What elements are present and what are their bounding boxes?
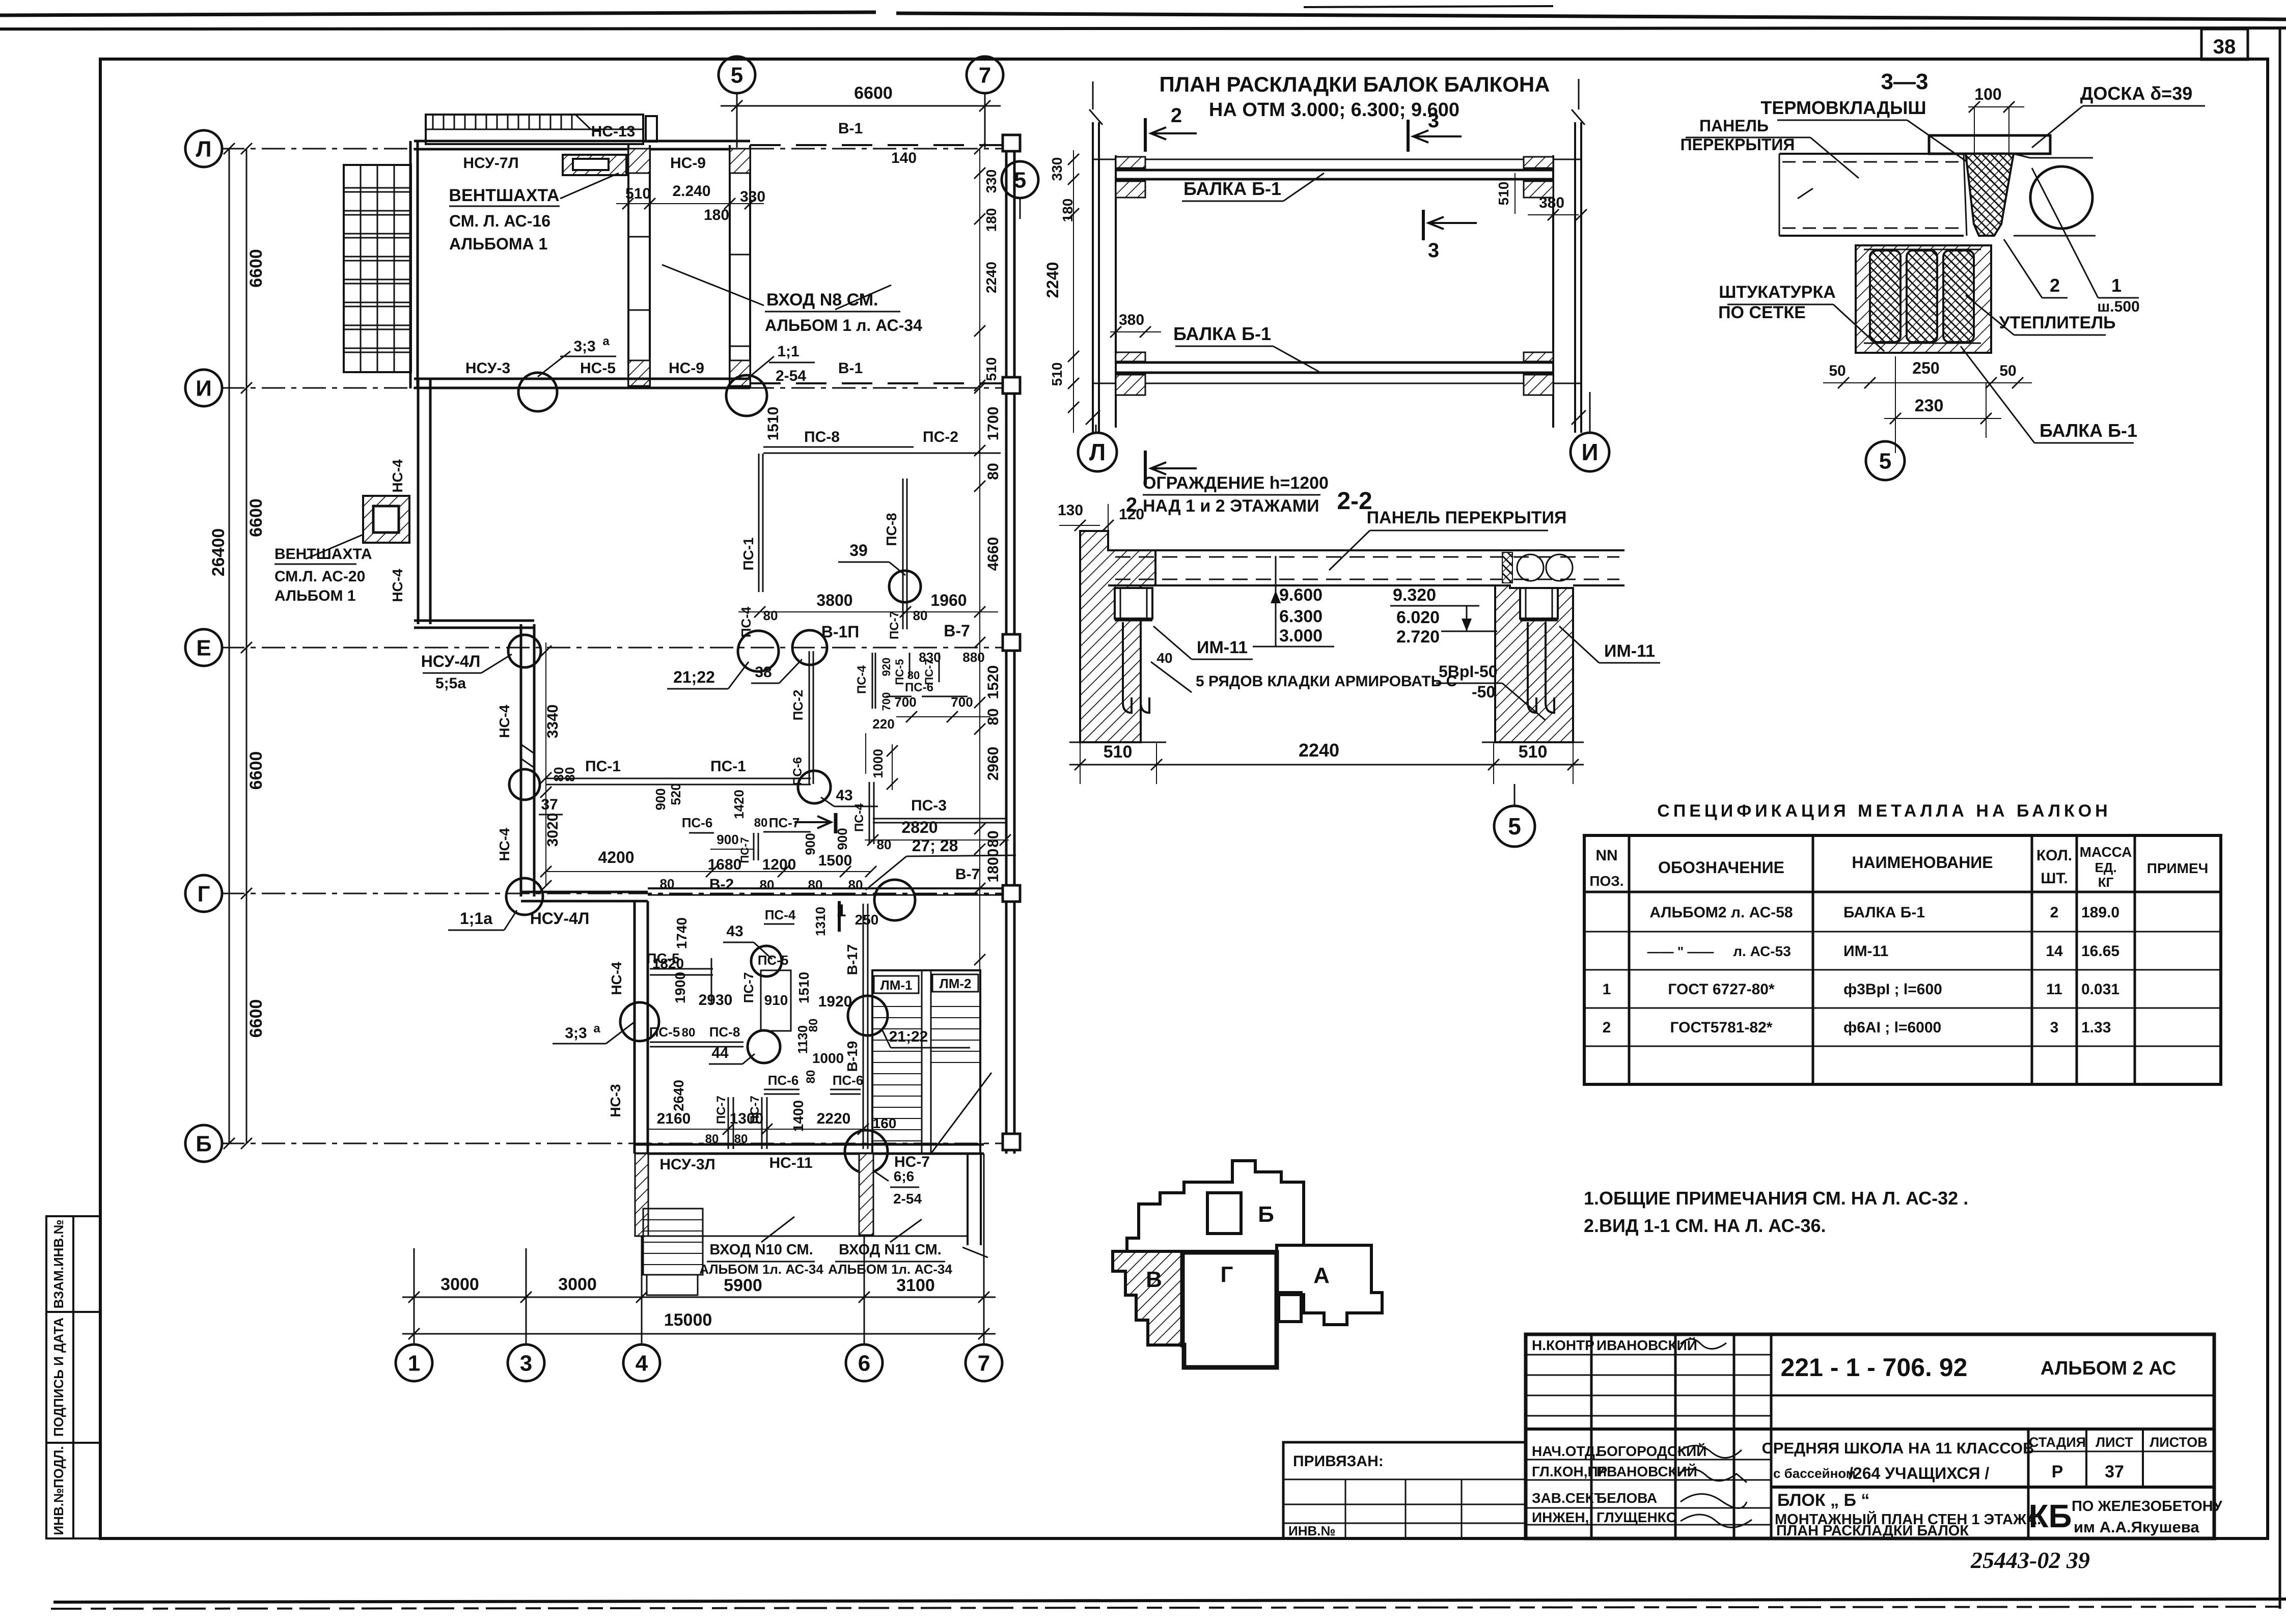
svg-text:ПС-5: ПС-5	[649, 1024, 680, 1040]
svg-text:2-54: 2-54	[776, 368, 806, 384]
svg-text:АЛЬБОМ 1 л. АС-34: АЛЬБОМ 1 л. АС-34	[765, 316, 922, 334]
svg-text:80: 80	[807, 1019, 820, 1032]
axis circle 7	[966, 1345, 1002, 1381]
svg-text:21;22: 21;22	[673, 668, 715, 686]
key plan block В hatched	[1113, 1251, 1182, 1345]
anchor hooks right	[1528, 622, 1536, 713]
svg-text:38: 38	[755, 664, 772, 681]
svg-text:ВЕНТШАХТА: ВЕНТШАХТА	[449, 186, 559, 205]
partition В-17 В-19 vertical	[863, 904, 864, 1149]
svg-text:ПАНЕЛЬ ПЕРЕКРЫТИЯ: ПАНЕЛЬ ПЕРЕКРЫТИЯ	[1367, 508, 1567, 527]
svg-text:80: 80	[877, 837, 892, 852]
svg-text:3020: 3020	[544, 813, 561, 847]
sheet right edge line	[2279, 28, 2281, 1609]
key plan inner rect in Б	[1207, 1193, 1241, 1234]
svg-text:1000: 1000	[812, 1050, 844, 1066]
svg-text:ИМ-11: ИМ-11	[1604, 641, 1655, 661]
svg-text:НСУ-3: НСУ-3	[465, 360, 510, 377]
beam plan left dim chain	[1073, 150, 1074, 433]
svg-text:21;22: 21;22	[889, 1028, 928, 1045]
svg-text:НС-11: НС-11	[769, 1155, 812, 1171]
svg-text:80: 80	[754, 816, 768, 830]
column pads on right wall	[1003, 135, 1020, 151]
partitions ПС-6 lower	[764, 1089, 800, 1090]
svg-text:2240: 2240	[1043, 262, 1062, 298]
svg-text:330: 330	[1049, 157, 1065, 181]
svg-text:л. АС-53: л. АС-53	[1733, 943, 1791, 959]
title block thick mid line	[1526, 1427, 2214, 1431]
svg-text:15000: 15000	[664, 1310, 712, 1330]
svg-text:330: 330	[983, 170, 999, 193]
svg-text:26400: 26400	[209, 528, 228, 577]
axis circle 6	[846, 1345, 883, 1381]
svg-text:1;1: 1;1	[777, 343, 799, 360]
svg-text:ПС-5: ПС-5	[893, 659, 906, 685]
beam plan left wall axis break	[1089, 109, 1103, 125]
svg-text:СТАДИЯ: СТАДИЯ	[2029, 1435, 2086, 1450]
svg-text:ВЕНТШАХТА: ВЕНТШАХТА	[274, 546, 372, 563]
svg-text:1300: 1300	[730, 1110, 764, 1127]
sheet top border line	[0, 28, 2286, 29]
spec table grid	[1584, 835, 2221, 1084]
entrance labels	[761, 1217, 794, 1242]
axis circle Г	[185, 875, 222, 912]
right lower wall stub	[967, 1154, 969, 1245]
svg-text:80: 80	[848, 877, 863, 892]
svg-text:700: 700	[951, 694, 973, 710]
lower left wall Г-Б	[634, 901, 636, 1154]
svg-text:5900: 5900	[724, 1276, 762, 1295]
svg-text:40: 40	[1156, 650, 1172, 666]
svg-text:330: 330	[740, 188, 765, 205]
svg-text:КГ: КГ	[2098, 875, 2114, 890]
svg-text:с бассейном: с бассейном	[1773, 1466, 1856, 1481]
stairs ЛМ-1 ЛМ-2	[872, 970, 980, 1154]
title block vertical dividers	[1590, 1334, 1593, 1538]
vent shaft hatched (АС-16)	[563, 155, 626, 175]
svg-text:14: 14	[2046, 943, 2063, 960]
svg-text:1420: 1420	[731, 790, 747, 819]
beam plan axis circles	[1095, 425, 1097, 433]
svg-text:ПС-2: ПС-2	[923, 429, 958, 445]
svg-text:2-54: 2-54	[893, 1191, 922, 1207]
svg-text:80: 80	[551, 767, 566, 782]
svg-text:220: 220	[872, 716, 894, 732]
svg-text:а: а	[602, 334, 610, 348]
callout circle 1;1 2-54	[726, 375, 767, 416]
label Вентшахта АС-20	[306, 535, 363, 559]
axis circle Е	[185, 629, 222, 666]
svg-text:4200: 4200	[598, 848, 634, 866]
svg-text:830: 830	[919, 650, 941, 665]
svg-text:0.031: 0.031	[2081, 981, 2119, 998]
svg-text:6.020: 6.020	[1396, 608, 1440, 627]
svg-text:Е: Е	[196, 635, 211, 660]
axis circle Б	[185, 1125, 222, 1162]
signatures squiggles	[1681, 1339, 1726, 1349]
axis И line	[221, 387, 1011, 389]
svg-text:КБ: КБ	[2028, 1498, 2072, 1534]
svg-text:ГЛУЩЕНКО: ГЛУЩЕНКО	[1596, 1509, 1677, 1525]
svg-text:ЕД.: ЕД.	[2095, 860, 2116, 875]
svg-text:ПРИМЕЧ: ПРИМЕЧ	[2147, 860, 2209, 876]
partitions ПС-7 bottom verticals	[728, 1097, 729, 1149]
callout circle on В-7	[874, 880, 915, 920]
axis Л line	[221, 148, 1011, 150]
svg-text:250: 250	[855, 912, 879, 928]
svg-text:НС-4: НС-4	[497, 705, 512, 738]
svg-text:2.720: 2.720	[1396, 627, 1440, 647]
svg-text:ЗАВ.СЕКТ.: ЗАВ.СЕКТ.	[1532, 1490, 1605, 1506]
anchor hooks left	[1123, 622, 1132, 713]
svg-text:27; 28: 27; 28	[912, 836, 958, 855]
svg-text:Р: Р	[2052, 1462, 2063, 1481]
svg-text:5ВрI-50: 5ВрI-50	[1439, 662, 1498, 681]
svg-text:АЛЬБОМ 1л. АС-34: АЛЬБОМ 1л. АС-34	[828, 1262, 952, 1277]
rows lower left	[1526, 1459, 1771, 1461]
svg-text:ПС-4: ПС-4	[855, 665, 869, 694]
svg-text:ПС-3: ПС-3	[911, 797, 947, 814]
svg-text:80: 80	[760, 877, 775, 892]
axis circle 5 (3-3)	[1866, 441, 1905, 480]
svg-text:ВХОД N10 СМ.: ВХОД N10 СМ.	[709, 1242, 813, 1258]
right outer wall x1984	[1005, 145, 1008, 1154]
cluster callout circles on Е axis	[738, 631, 779, 671]
svg-text:1;1а: 1;1а	[460, 909, 492, 928]
vent shaft 2 hatched	[363, 496, 409, 543]
left wall Е-Г segment	[520, 624, 522, 897]
svg-text:ПС-2: ПС-2	[790, 690, 806, 721]
svg-text:80: 80	[985, 830, 1002, 847]
svg-text:120: 120	[1119, 506, 1144, 523]
svg-text:ПС-1: ПС-1	[585, 758, 621, 775]
svg-text:СПЕЦИФИКАЦИЯ МЕТАЛЛА НА БАЛКОН: СПЕЦИФИКАЦИЯ МЕТАЛЛА НА БАЛКОН	[1657, 801, 2111, 821]
callout 21;22 circle lower	[848, 996, 888, 1035]
svg-text:УТЕПЛИТЕЛЬ: УТЕПЛИТЕЛЬ	[1999, 313, 2115, 332]
beam end hatched bearings	[1116, 157, 1145, 168]
svg-text:1510: 1510	[765, 407, 782, 441]
cluster partitions	[872, 653, 873, 709]
svg-text:ф6АI ; l=6000: ф6АI ; l=6000	[1843, 1019, 1941, 1036]
svg-text:3340: 3340	[544, 705, 561, 739]
svg-text:1.33: 1.33	[2081, 1019, 2111, 1036]
svg-text:130: 130	[1058, 502, 1083, 519]
svg-text:НС-4: НС-4	[497, 828, 512, 861]
svg-text:5 РЯДОВ КЛАДКИ АРМИРОВАТЬ С: 5 РЯДОВ КЛАДКИ АРМИРОВАТЬ С	[1196, 673, 1457, 690]
svg-text:3;3: 3;3	[565, 1025, 587, 1042]
right side vertical dim chain	[979, 149, 980, 1143]
section 2-2 right wall hatched	[1495, 585, 1573, 742]
svg-text:5: 5	[1879, 449, 1891, 473]
svg-text:2820: 2820	[901, 818, 938, 836]
svg-text:2.ВИД 1-1 СМ. НА Л. АС-3: 2.ВИД 1-1 СМ. НА Л. АС-36.	[1584, 1215, 1826, 1236]
svg-text:2: 2	[2050, 275, 2060, 296]
svg-text:НС-3: НС-3	[608, 1084, 623, 1117]
svg-text:520: 520	[668, 783, 683, 805]
svg-text:3000: 3000	[558, 1275, 597, 1294]
svg-text:БОГОРОДСКИЙ: БОГОРОДСКИЙ	[1596, 1443, 1706, 1459]
svg-text:/264 УЧАЩИХСЯ /: /264 УЧАЩИХСЯ /	[1849, 1464, 1989, 1482]
svg-text:И: И	[196, 376, 212, 401]
section marks 3-3 on beam plan	[1407, 120, 1410, 152]
svg-text:НСУ-3Л: НСУ-3Л	[659, 1156, 715, 1173]
svg-text:1960: 1960	[930, 591, 967, 609]
key plan small appendix	[1279, 1293, 1301, 1322]
wall axis Г	[521, 891, 648, 893]
svg-text:510: 510	[625, 185, 651, 202]
callout НСУ-4Л 5;5а	[508, 635, 541, 667]
inner wall 1 vertical (x1255)	[627, 145, 629, 388]
outer wall axis Л (НСУ-7Л)	[414, 140, 750, 143]
svg-text:ШТ.: ШТ.	[2041, 870, 2068, 887]
svg-text:ПС-7: ПС-7	[888, 611, 901, 639]
svg-text:1900: 1900	[672, 972, 688, 1003]
svg-text:2960: 2960	[985, 747, 1002, 781]
svg-text:700: 700	[894, 694, 916, 710]
svg-text:3.000: 3.000	[1279, 626, 1323, 646]
svg-text:ПС-1: ПС-1	[710, 758, 746, 775]
svg-text:НС-4: НС-4	[609, 962, 624, 995]
beam plan right wall	[1574, 122, 1576, 433]
svg-text:1: 1	[408, 1351, 420, 1376]
svg-text:ИВАНОВСКИЙ: ИВАНОВСКИЙ	[1596, 1337, 1697, 1353]
bottom beam Б-1	[1116, 361, 1553, 364]
svg-text:АЛЬБОМ2 л. АС-58: АЛЬБОМ2 л. АС-58	[1649, 904, 1793, 921]
svg-text:NN: NN	[1595, 847, 1617, 864]
svg-text:80: 80	[682, 1026, 696, 1040]
svg-text:80: 80	[985, 463, 1002, 480]
svg-text:25443-02 39: 25443-02 39	[1970, 1547, 2090, 1573]
bottom dim chain row2 15000	[402, 1333, 996, 1335]
lower rooms partitions	[650, 968, 713, 970]
top axis circles 5 and 7	[736, 93, 738, 148]
svg-text:4660: 4660	[985, 537, 1002, 571]
svg-text:1740: 1740	[674, 917, 690, 949]
svg-text:МАССА: МАССА	[2080, 844, 2132, 860]
callout circle 37	[509, 769, 540, 800]
partition ПС-3	[873, 818, 1005, 820]
axis circle Л	[185, 130, 222, 167]
svg-text:ф3ВрI ; l=600: ф3ВрI ; l=600	[1843, 981, 1942, 998]
svg-text:2: 2	[1603, 1019, 1611, 1036]
svg-text:ПС-6: ПС-6	[682, 815, 713, 830]
axis 3 vertical line	[526, 1248, 527, 1345]
partition ПС-8 vertical x1752	[902, 479, 904, 629]
svg-text:ПС-6: ПС-6	[791, 757, 805, 786]
right columns СТАДИЯ ЛИСТ ЛИСТОВ	[2027, 1429, 2030, 1538]
svg-text:ИМ-11: ИМ-11	[1197, 638, 1248, 657]
callout 44 circle	[748, 1030, 780, 1063]
inner wall 2 vertical (x1453)	[729, 145, 731, 388]
svg-text:250: 250	[1912, 359, 1939, 377]
svg-text:6600: 6600	[854, 83, 893, 103]
svg-text:БАЛКА Б-1: БАЛКА Б-1	[1183, 178, 1281, 199]
svg-text:1500: 1500	[818, 852, 852, 869]
svg-text:ш.500: ш.500	[2097, 298, 2139, 315]
svg-text:6600: 6600	[246, 249, 266, 288]
svg-text:ПС-8: ПС-8	[884, 513, 899, 546]
axis circle 4	[623, 1345, 660, 1381]
vertical dim chain 6600 x4	[246, 149, 247, 1143]
ground hatch marks under walls	[1069, 742, 1166, 743]
axis circle И	[185, 370, 222, 406]
section marks 2-2 on beam plan	[1144, 118, 1147, 152]
svg-text:ПС-7: ПС-7	[741, 972, 756, 1003]
svg-text:510: 510	[1104, 742, 1133, 762]
svg-text:189.0: 189.0	[2081, 904, 2119, 921]
left wall И-Е segment	[417, 379, 420, 624]
partition ПС-1 vertical x1499	[758, 454, 760, 592]
svg-text:ПС-6: ПС-6	[905, 681, 933, 694]
svg-text:1820: 1820	[652, 956, 684, 971]
svg-text:2220: 2220	[817, 1110, 851, 1127]
svg-text:7: 7	[979, 63, 991, 88]
corridor wall В-2 В-7 along Г	[648, 887, 1004, 889]
svg-text:80: 80	[913, 608, 928, 623]
svg-text:ГОСТ 6727-80*: ГОСТ 6727-80*	[1668, 981, 1775, 998]
svg-text:5;5а: 5;5а	[435, 675, 466, 692]
section 2-2 floor panel	[1108, 549, 1624, 551]
svg-text:ДОСКА δ=39: ДОСКА δ=39	[2080, 83, 2193, 104]
key plan block Б outline	[1127, 1161, 1304, 1251]
svg-text:Г: Г	[198, 881, 210, 906]
svg-text:6600: 6600	[246, 498, 266, 537]
svg-text:9.600: 9.600	[1279, 585, 1323, 605]
section mark 1 upper	[834, 813, 838, 833]
svg-text:50: 50	[1999, 362, 2016, 379]
svg-text:80: 80	[808, 877, 823, 892]
svg-text:БАЛКА Б-1: БАЛКА Б-1	[2040, 420, 2137, 441]
svg-text:910: 910	[764, 992, 788, 1008]
svg-text:ПАНЕЛЬ: ПАНЕЛЬ	[1699, 117, 1769, 135]
svg-text:380: 380	[1539, 194, 1564, 211]
svg-text:ГОСТ5781-82*: ГОСТ5781-82*	[1670, 1019, 1773, 1036]
svg-text:А: А	[1313, 1263, 1330, 1288]
board on top	[1929, 135, 2050, 154]
svg-text:АЛЬБОМА 1: АЛЬБОМА 1	[449, 235, 547, 253]
svg-text:ВХОД N11 СМ.: ВХОД N11 СМ.	[839, 1242, 942, 1258]
svg-text:11: 11	[2046, 981, 2062, 998]
key plan block А outline	[1277, 1245, 1382, 1325]
svg-text:НСУ-4Л: НСУ-4Л	[530, 909, 590, 928]
top beam Б-1	[1093, 159, 1581, 160]
axis 1 vertical line	[414, 1248, 415, 1345]
svg-text:Б: Б	[1258, 1202, 1274, 1227]
beam below hatched	[1856, 245, 1991, 353]
svg-text:2240: 2240	[1299, 740, 1339, 761]
title block main outline	[1526, 1334, 2214, 1538]
overall dim 26400	[229, 149, 230, 1143]
svg-text:НСУ-7Л: НСУ-7Л	[463, 155, 518, 172]
svg-text:ПС-6: ПС-6	[833, 1073, 864, 1088]
leader Вход N8	[662, 265, 764, 305]
svg-text:ОГРАЖДЕНИЕ h=1200: ОГРАЖДЕНИЕ h=1200	[1143, 473, 1329, 493]
svg-text:ПО СЕТКЕ: ПО СЕТКЕ	[1718, 303, 1806, 322]
embedded beams left (ИМ-11)	[1115, 588, 1152, 619]
axis 4 vertical line	[641, 1154, 643, 1345]
svg-text:3: 3	[2050, 1019, 2059, 1036]
svg-text:920: 920	[880, 658, 893, 677]
svg-text:СРЕДНЯЯ ШКОЛА НА 11 КЛАССОВ: СРЕДНЯЯ ШКОЛА НА 11 КЛАССОВ	[1761, 1439, 2034, 1457]
svg-text:1920: 1920	[818, 993, 852, 1010]
svg-text:В-17: В-17	[844, 944, 860, 975]
svg-text:1700: 1700	[985, 407, 1002, 441]
svg-text:БАЛКА Б-1: БАЛКА Б-1	[1173, 323, 1271, 344]
svg-text:80: 80	[763, 608, 778, 623]
svg-text:ПС-4: ПС-4	[852, 803, 866, 832]
svg-text:а: а	[593, 1022, 600, 1035]
svg-text:510: 510	[1519, 742, 1548, 762]
panel hollow cores right	[1517, 554, 1544, 581]
center partitions cluster	[753, 833, 755, 860]
svg-text:160: 160	[873, 1115, 897, 1131]
svg-text:НАД 1 и 2 ЭТАЖАМИ: НАД 1 и 2 ЭТАЖАМИ	[1143, 496, 1319, 516]
svg-text:ПРИВЯЗАН:: ПРИВЯЗАН:	[1293, 1453, 1384, 1470]
svg-text:1400: 1400	[790, 1100, 806, 1132]
svg-text:6.300: 6.300	[1279, 607, 1323, 626]
svg-text:ПС-8: ПС-8	[804, 429, 840, 445]
svg-text:ЛИСТ: ЛИСТ	[2096, 1435, 2133, 1450]
svg-text:6600: 6600	[246, 751, 266, 790]
svg-text:ИНВ.№: ИНВ.№	[1288, 1523, 1335, 1538]
svg-text:Н.КОНТР: Н.КОНТР	[1532, 1337, 1594, 1353]
svg-text:ПС-6: ПС-6	[768, 1073, 799, 1088]
svg-text:В-7: В-7	[944, 622, 970, 640]
svg-text:ИНЖЕН,: ИНЖЕН,	[1532, 1509, 1589, 1525]
svg-text:НАИМЕНОВАНИЕ: НАИМЕНОВАНИЕ	[1852, 853, 1993, 872]
svg-text:80: 80	[804, 1070, 818, 1084]
bottom wall axis Б	[635, 1143, 984, 1146]
svg-text:1000: 1000	[870, 749, 886, 778]
svg-text:2.240: 2.240	[672, 183, 710, 200]
callout 6;6 2-54 circle	[845, 1130, 888, 1173]
svg-text:НС-5: НС-5	[580, 360, 616, 377]
svg-text:2640: 2640	[671, 1080, 686, 1111]
svg-text:221 - 1 - 706. 92: 221 - 1 - 706. 92	[1781, 1353, 1968, 1382]
svg-text:180: 180	[983, 208, 999, 232]
key plan block Г bold	[1182, 1252, 1277, 1367]
svg-text:В-7: В-7	[955, 866, 980, 883]
wall axis И	[414, 378, 750, 380]
svg-text:3000: 3000	[440, 1275, 479, 1294]
svg-text:им А.А.Якушева: им А.А.Якушева	[2074, 1518, 2199, 1536]
wall В-1 dashed to axis 7	[750, 144, 1004, 146]
svg-text:ОБОЗНАЧЕНИЕ: ОБОЗНАЧЕНИЕ	[1658, 858, 1784, 877]
axis Б line	[221, 1143, 1011, 1144]
svg-text:НС-4: НС-4	[390, 459, 405, 493]
svg-text:3800: 3800	[816, 591, 852, 609]
svg-text:1510: 1510	[796, 972, 812, 1003]
callout circle 3;3а on И	[518, 373, 557, 411]
svg-text:Л: Л	[196, 136, 212, 161]
svg-text:1520: 1520	[985, 665, 1002, 699]
svg-text:230: 230	[1915, 396, 1944, 415]
svg-text:ПС-4: ПС-4	[765, 907, 796, 922]
svg-text:В-1П: В-1П	[821, 623, 860, 641]
svg-text:ТЕРМОВКЛАДЫШ: ТЕРМОВКЛАДЫШ	[1760, 97, 1926, 118]
svg-text:Г: Г	[1221, 1262, 1233, 1287]
entrance platform line	[642, 1236, 967, 1237]
partition ПС-2 vertical	[809, 651, 810, 784]
svg-text:-50: -50	[1472, 683, 1495, 701]
svg-text:1800: 1800	[985, 849, 1002, 883]
svg-text:3: 3	[1428, 239, 1439, 262]
small room box	[761, 970, 791, 1031]
svg-text:БАЛКА Б-1: БАЛКА Б-1	[1843, 904, 1925, 921]
svg-text:9.320: 9.320	[1393, 585, 1436, 605]
svg-text:38: 38	[2213, 36, 2236, 58]
svg-text:7: 7	[978, 1351, 990, 1376]
